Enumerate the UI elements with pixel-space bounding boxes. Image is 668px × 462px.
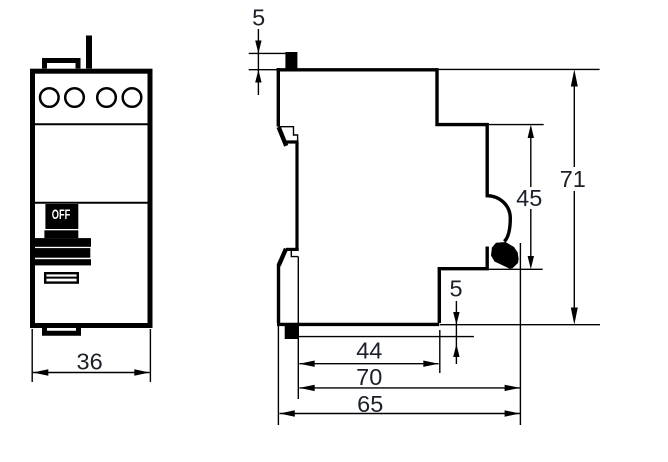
terminal hole 3 (97, 88, 116, 107)
svg-text:44: 44 (356, 338, 382, 364)
dimension 44/70 left extension line (297, 257, 299, 399)
dimension 65 left extension line (277, 326, 279, 425)
side body right lower edge and step (439, 247, 487, 324)
dimension 65/70 right extension line (519, 243, 521, 425)
top mounting clip black (285, 52, 297, 69)
dimension 65 line (280, 413, 520, 415)
front view top terminal pin (86, 36, 92, 69)
OFF switch block (45, 204, 78, 229)
side body bottom edge (277, 323, 439, 326)
dimension 5 bottom: reference line (298, 336, 474, 338)
toggle bar 1 (35, 238, 91, 247)
svg-text:5: 5 (449, 276, 462, 302)
dimension 71 line and arrows (571, 69, 578, 86)
front bottom tab (45, 328, 79, 333)
dimension 45 line and arrows (528, 125, 534, 138)
svg-text:45: 45 (516, 185, 542, 211)
terminal hole 2 (65, 88, 84, 107)
side body left upper edge (277, 68, 280, 126)
side body left lower edge (277, 265, 280, 324)
dimension 71 reference lines (439, 68, 600, 70)
toggle bar 3 (31, 259, 92, 265)
din mid vertical edge (295, 142, 298, 250)
dimension 5 top: vertical line and arrows (257, 29, 259, 95)
din clip lower hook diagonal (279, 249, 286, 266)
front view body outline (33, 71, 151, 325)
side body right profile with semicircle notch (437, 68, 510, 241)
label window (45, 273, 78, 282)
svg-text:OFF: OFF (52, 207, 71, 222)
dimension 5 bottom: vertical line and arrows (455, 301, 457, 364)
dimension 44 line (299, 363, 438, 365)
terminal hole 1 (40, 88, 59, 107)
dimension 36 extension lines (31, 329, 33, 382)
dimension 44 right extension line (439, 330, 441, 373)
front divider line lower (34, 202, 148, 204)
din clip upper hook diagonal (279, 127, 287, 146)
toggle stem (44, 230, 78, 238)
dimension 36 line (33, 372, 150, 374)
din clip lower step thick ledge (286, 248, 299, 251)
dimension 5 top: reference lines (249, 52, 286, 54)
terminal screw blob (491, 242, 519, 269)
svg-text:70: 70 (356, 364, 382, 390)
terminal hole 4 (123, 88, 142, 107)
din clip upper step thick ledge (286, 140, 299, 143)
din clip upper step thin lines (278, 127, 297, 142)
svg-text:5: 5 (252, 5, 265, 31)
din clip lower notch thin (291, 251, 298, 257)
front divider line upper (34, 123, 148, 125)
svg-text:71: 71 (560, 166, 586, 192)
dimension 45 reference lines (489, 124, 544, 126)
bottom mounting clip black (285, 326, 299, 339)
dimension 70 line (299, 387, 520, 389)
side body top edge (277, 68, 438, 71)
front view top tab (45, 61, 79, 69)
toggle bar 2 (31, 248, 91, 258)
svg-text:36: 36 (77, 348, 103, 374)
